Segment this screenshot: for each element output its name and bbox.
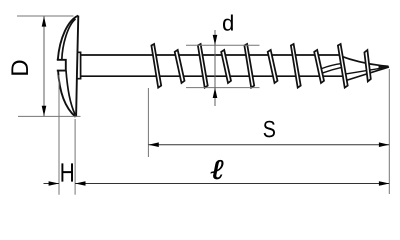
- label d: [223, 15, 233, 31]
- dimension d bottom extension line: [186, 87, 260, 89]
- dimension S arrow left: [148, 142, 158, 147]
- screw head bearing face: [76, 16, 78, 117]
- dimension S left extension line: [147, 88, 149, 157]
- dimension d arrow down: [213, 35, 218, 45]
- thread crest tall blade 5: [338, 44, 348, 88]
- dimension D line: [43, 16, 45, 116]
- node screw tip point: [379, 65, 390, 68]
- thread crest short blade 3: [268, 50, 278, 83]
- dimension S right extension line: [388, 69, 390, 194]
- dimension H stub line: [44, 183, 60, 185]
- thread crest tall blade 3: [244, 44, 254, 88]
- thread crest tall blade 1: [151, 44, 161, 88]
- dimension ell arrow left-pointing: [75, 181, 85, 186]
- screw head outer bottom curve: [58, 71, 76, 117]
- thread crest short blade 1: [175, 50, 185, 83]
- wire cone helix diagonal 2: [322, 67, 343, 73]
- thread crest short blade 2: [221, 50, 231, 83]
- dimension H right extension line: [74, 119, 76, 195]
- dimension d arrow up: [213, 88, 218, 98]
- dimension D bottom extension line: [18, 115, 81, 117]
- wire shank bottom line: [81, 75, 344, 77]
- dimension H arrow right-pointing: [49, 181, 59, 186]
- thread crest tall blade 2: [198, 44, 208, 88]
- dimension ell arrow right-pointing: [379, 181, 389, 186]
- dimension ell line: [75, 183, 389, 185]
- screw head inner top curve: [62, 19, 76, 60]
- thread crest tall blade 4: [291, 44, 301, 88]
- label ell: [211, 160, 223, 179]
- wire cone band lower edge: [346, 67, 389, 81]
- dimension S arrow right: [379, 142, 389, 147]
- dimension d line: [214, 30, 216, 106]
- wire cone band upper edge: [342, 67, 387, 74]
- screw head collar: [77, 52, 80, 78]
- thread crest short blade 4: [314, 50, 324, 83]
- dimension S line: [148, 144, 389, 146]
- dimension H left extension line: [58, 75, 60, 195]
- label S: [264, 121, 275, 138]
- wire cone upper silhouette: [339, 55, 389, 66]
- thread crest cone blade: [364, 50, 370, 81]
- label D: [11, 60, 28, 74]
- dimension D arrow down: [42, 106, 47, 116]
- dimension d top extension line: [186, 44, 260, 46]
- dimension D arrow up: [42, 16, 47, 26]
- label H: [61, 163, 73, 181]
- screw head outer top curve: [58, 16, 79, 60]
- screw head slot notch: [57, 60, 66, 71]
- wire shank top line: [81, 54, 341, 56]
- wire cone helix diagonal 1: [322, 64, 342, 69]
- screw head inner bottom curve: [66, 71, 75, 115]
- dimension D top extension line: [17, 15, 74, 17]
